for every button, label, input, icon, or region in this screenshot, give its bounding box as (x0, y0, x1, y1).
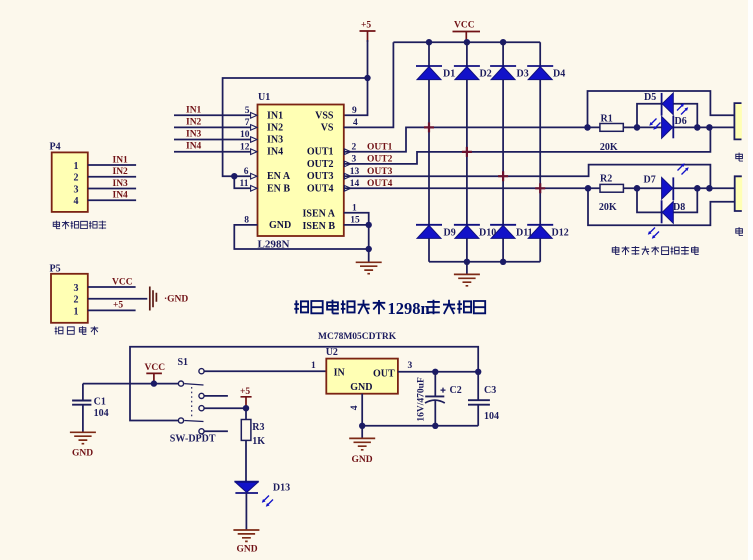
svg-text:4: 4 (74, 196, 79, 207)
wire GND pin8 of U1 (234, 225, 368, 262)
wire P5 pin1 +5 (88, 309, 136, 311)
svg-text:15: 15 (350, 216, 360, 226)
LED D5 pointing left (662, 93, 674, 116)
svg-text:+5: +5 (240, 387, 250, 397)
LED D6 pointing right (662, 116, 674, 139)
diode D10 (454, 225, 480, 239)
diode D9 (416, 225, 442, 239)
svg-text:GND: GND (352, 455, 373, 465)
wire IN4 stub to U1 (174, 151, 251, 153)
node +5 R3 junction (243, 405, 249, 411)
wire IN2 stub to U1 (174, 126, 251, 128)
connector motor 2 (735, 176, 743, 211)
svg-text:IN3: IN3 (113, 179, 129, 189)
node bypass left (634, 124, 641, 131)
svg-text:C3: C3 (484, 385, 496, 396)
wire U2 gnd stem (361, 426, 363, 438)
svg-text:8: 8 (244, 216, 249, 226)
svg-text:OUT3: OUT3 (307, 171, 334, 182)
pin arrow OUT4 (344, 186, 350, 192)
wire P4 pin2 (88, 176, 136, 178)
pin arrow OUT1 (344, 149, 350, 155)
wire VCC top rail (393, 41, 540, 43)
ground earth below C1 (70, 432, 96, 443)
wire switch to R3 node (204, 407, 246, 409)
title chip data chinese (427, 300, 485, 314)
connector P5 (51, 274, 88, 323)
node VCC junction (151, 380, 157, 386)
svg-text:R2: R2 (600, 174, 612, 185)
svg-text:IN3: IN3 (267, 135, 283, 146)
node OUT4 loop junction (585, 185, 592, 192)
resistor R1 (600, 124, 623, 132)
node rail D2 (464, 39, 470, 45)
pin arrow EN A (251, 173, 257, 179)
LED D6 light arrows (677, 103, 688, 114)
diode D3 (490, 66, 516, 80)
svg-text:D5: D5 (644, 92, 656, 103)
LED D5 light arrows (649, 119, 660, 130)
svg-text:VCC: VCC (145, 363, 166, 373)
svg-text:2: 2 (74, 173, 79, 184)
svg-text:OUT2: OUT2 (307, 159, 334, 170)
svg-text:D3: D3 (517, 69, 529, 80)
svg-text:4: 4 (350, 405, 360, 410)
svg-text:1: 1 (74, 306, 79, 317)
wire OUT3 net (344, 165, 711, 189)
op-amp U1 chip body L298N (258, 105, 344, 237)
svg-text:VCC: VCC (112, 277, 133, 287)
wire +5 vertical to VSS pin9 (344, 40, 368, 115)
pin names U2 (334, 368, 395, 394)
svg-text:12: 12 (240, 142, 250, 152)
node bypass2 right (694, 185, 701, 192)
wire diode column 2 (466, 42, 468, 262)
svg-text:EN B: EN B (267, 183, 290, 194)
svg-text:P4: P4 (50, 142, 61, 153)
svg-text:U2: U2 (326, 347, 338, 358)
svg-text:20K: 20K (599, 202, 617, 213)
svg-text:D8: D8 (673, 202, 685, 213)
label motor direction indicator chinese (612, 246, 698, 255)
svg-text:D12: D12 (552, 228, 569, 239)
wire P4 pin4 (88, 199, 136, 201)
svg-text:GND: GND (269, 220, 291, 231)
regulator U2 body (326, 359, 398, 394)
capacitor C3 (468, 372, 490, 426)
node junction OUT2 column2 (462, 147, 472, 157)
svg-text:IN4: IN4 (267, 147, 283, 158)
pin names U1 right (302, 110, 335, 232)
node OUT3 riser junction (706, 185, 713, 192)
svg-text:U1: U1 (258, 92, 270, 103)
pin arrow OUT2 (344, 161, 350, 167)
node junction OUT4 column4 (535, 183, 545, 193)
connector motor 1 (734, 103, 742, 139)
label motor chinese bottom connector (736, 227, 743, 235)
node junction OUT3 column3 (498, 171, 508, 181)
svg-text:104: 104 (94, 408, 109, 419)
node bypass right (694, 124, 701, 131)
node C2 bottom (432, 423, 438, 429)
diode D11 (490, 225, 516, 239)
LED D13 light arrows (262, 496, 273, 507)
title programming note chinese (294, 300, 385, 314)
SECTION2 (344, 32, 742, 286)
capacitor C2 electrolytic (425, 372, 445, 426)
diode D12 (527, 225, 553, 239)
svg-text:D11: D11 (516, 228, 533, 239)
wire P5 pin2 GND (88, 298, 148, 300)
pin numbers P5 (74, 283, 79, 317)
switch S1 contacts pole1 (178, 369, 204, 399)
svg-text:R3: R3 (252, 422, 264, 433)
svg-text:IN4: IN4 (186, 142, 202, 152)
diode D2 (454, 66, 480, 80)
pin arrow IN3 (251, 137, 257, 143)
svg-text:VS: VS (321, 122, 334, 133)
node C3 top (475, 369, 481, 375)
svg-text:GND: GND (350, 382, 372, 393)
svg-text:3: 3 (74, 283, 79, 294)
svg-text:D6: D6 (675, 116, 687, 127)
wire diode column 3 (502, 42, 504, 262)
wire IN1 stub to U1 (174, 114, 251, 116)
label motor chinese top connector (736, 153, 743, 161)
node bottom rail gnd stem (464, 259, 470, 265)
wire +5 branch to EN pins (223, 78, 368, 176)
svg-text:D9: D9 (444, 228, 456, 239)
LED D13 pointing down (234, 482, 258, 493)
svg-text:C2: C2 (450, 385, 462, 396)
wire D5 bypass loop (637, 104, 697, 128)
ground GND bar symbol at P5 (150, 287, 157, 311)
svg-text:D10: D10 (479, 228, 496, 239)
svg-text:6: 6 (244, 167, 249, 177)
svg-text:IN2: IN2 (186, 117, 202, 127)
svg-text:S1: S1 (178, 357, 189, 368)
power VCC symbol lower (146, 373, 162, 383)
svg-text:104: 104 (484, 411, 499, 422)
node +5 branch junction (364, 75, 370, 81)
wire VS pin4 riser (344, 42, 394, 127)
power +5 symbol lower (241, 397, 252, 408)
pin arrow IN4 (251, 149, 257, 155)
SECTION3 (70, 347, 490, 542)
pin numbers U1 left (240, 106, 250, 226)
svg-text:VSS: VSS (315, 110, 334, 121)
LED D7 pointing right (662, 177, 674, 200)
pin numbers U1 right (350, 106, 360, 226)
label system power chinese (55, 326, 99, 335)
node junction OUT1 column1 (424, 122, 434, 132)
LED D8 light arrows (648, 228, 659, 239)
svg-text:EN A: EN A (267, 171, 291, 182)
svg-text:MC78M05CDTRK: MC78M05CDTRK (318, 332, 397, 342)
LED D8 pointing left (662, 200, 674, 223)
pin arrow IN2 (251, 125, 257, 131)
node C2 top (432, 369, 438, 375)
node OUT2 riser junction (706, 124, 713, 131)
svg-text:VCC: VCC (454, 21, 475, 31)
node EN junction (231, 173, 237, 179)
wire EN B link (234, 176, 251, 188)
svg-text:11: 11 (240, 179, 249, 189)
switch S1 dashed link (191, 387, 193, 417)
svg-text:C1: C1 (94, 397, 106, 408)
wire D13 to ground (245, 493, 247, 530)
svg-text:OUT: OUT (373, 368, 395, 379)
connector P4 (52, 152, 88, 212)
svg-text:20K: 20K (600, 142, 618, 153)
svg-text:D2: D2 (480, 69, 492, 80)
node rail D1 (426, 39, 432, 45)
net labels IN1-IN4 at P4 (113, 155, 129, 200)
wire OUT4 net (344, 187, 735, 189)
svg-text:SW-DPDT: SW-DPDT (170, 433, 216, 444)
svg-text:+5: +5 (361, 21, 371, 31)
wire switch to U2 IN (204, 370, 326, 372)
pin numbers P4 (74, 161, 79, 207)
wire OUT2 net (344, 127, 711, 163)
svg-text:IN1: IN1 (113, 155, 129, 165)
wire P5 pin3 VCC (88, 286, 136, 288)
switch S1 contacts pole2 (178, 406, 204, 434)
ground earth below D13 (233, 530, 259, 541)
svg-text:D13: D13 (273, 483, 290, 494)
ground earth below diode array (454, 274, 480, 285)
wire U2 GND pin4 (361, 394, 363, 426)
resistor R3 (241, 408, 251, 481)
wire bottom gnd rail (429, 261, 540, 263)
wire lower outer loop to motor pin2 (588, 188, 735, 225)
diode D4 (527, 66, 553, 80)
svg-text:OUT1: OUT1 (307, 147, 334, 158)
svg-text:IN4: IN4 (113, 191, 129, 201)
svg-text:IN1: IN1 (267, 110, 283, 121)
svg-text:10: 10 (240, 130, 250, 140)
wire OUT1 net (344, 127, 735, 151)
node rail D3 (500, 39, 506, 45)
wire gnd stem of diode array (466, 262, 468, 274)
svg-text:D7: D7 (644, 175, 656, 186)
wire diode column 4 (539, 42, 541, 262)
LED D7 light arrows (678, 163, 689, 174)
pin arrow EN B (251, 186, 257, 192)
svg-text:1: 1 (74, 161, 79, 172)
svg-text:P5: P5 (50, 264, 61, 275)
svg-text:ISEN A: ISEN A (302, 209, 335, 220)
svg-text:7: 7 (245, 118, 250, 128)
svg-text:+5: +5 (113, 301, 123, 311)
power +5 top symbol (360, 31, 376, 42)
pin arrow IN1 (251, 113, 257, 119)
wire VCC feed (83, 383, 178, 385)
svg-text:5: 5 (245, 106, 250, 116)
svg-text:GND: GND (72, 448, 93, 458)
node OUT1 loop junction (584, 124, 591, 131)
svg-text:R1: R1 (601, 113, 613, 124)
capacitor C1 (72, 384, 91, 432)
wire ISEN A pin1 (344, 213, 369, 249)
label motor control signal chinese (53, 221, 106, 229)
wire ISEN B pin15 (344, 224, 369, 226)
svg-text:1K: 1K (252, 436, 265, 447)
svg-text:IN3: IN3 (186, 130, 202, 140)
wire bottom rail of regulator (362, 425, 478, 427)
wire P4 pin3 (88, 188, 136, 190)
node bypass2 left (634, 185, 641, 192)
svg-text:IN1: IN1 (186, 105, 202, 115)
svg-text:GND: GND (237, 545, 258, 555)
svg-text:L298N: L298N (258, 240, 291, 251)
wire U2 OUT pin3 (398, 371, 478, 373)
wire IN3 stub to U1 (174, 139, 251, 141)
svg-text:·GND: ·GND (164, 294, 188, 304)
switch S1 lever2 (184, 421, 203, 422)
node ISEN junction (366, 222, 372, 228)
svg-text:IN: IN (334, 368, 346, 379)
node pin4 gnd junction (359, 423, 365, 429)
svg-text:3: 3 (74, 184, 79, 195)
diode D1 (416, 66, 442, 80)
wire switch stub pole1 lower (204, 395, 228, 397)
power VCC top symbol (453, 32, 481, 43)
right edge white strip (748, 0, 753, 560)
wire D8 bypass loop (637, 188, 697, 212)
svg-text:D4: D4 (553, 69, 565, 80)
svg-text:1: 1 (311, 361, 316, 371)
svg-text:1298n: 1298n (388, 299, 430, 318)
wire switch stub pole2 lower (204, 430, 228, 432)
resistor R2 (600, 184, 623, 192)
svg-text:D1: D1 (443, 69, 455, 80)
label plus C2 (441, 385, 462, 396)
net labels IN1-IN4 at U1 (186, 105, 202, 151)
wire diode column 1 (428, 42, 430, 262)
node bottom rail D11 (500, 259, 506, 265)
net labels OUT1-OUT4 (367, 142, 393, 189)
svg-text:OUT4: OUT4 (307, 183, 334, 194)
pin arrow OUT3 (344, 173, 350, 179)
ground earth below U2 (349, 438, 375, 449)
svg-text:1: 1 (352, 203, 357, 213)
svg-text:3: 3 (408, 361, 413, 371)
svg-text:IN2: IN2 (267, 122, 283, 133)
svg-text:9: 9 (352, 106, 357, 116)
svg-text:ISEN B: ISEN B (302, 221, 335, 232)
svg-text:IN2: IN2 (113, 167, 129, 177)
pin names U1 left (267, 110, 291, 231)
wire P4 pin1 (88, 164, 136, 166)
svg-text:2: 2 (74, 295, 79, 306)
switch S1 lever1 (184, 384, 203, 385)
svg-text:16V/470uF: 16V/470uF (417, 377, 427, 422)
node GND junction U1 (366, 246, 372, 252)
wire upper outer loop to motor pin1 (588, 91, 735, 127)
ground earth below U1 (356, 262, 382, 273)
wire +5 rail top of lower section (130, 347, 478, 421)
